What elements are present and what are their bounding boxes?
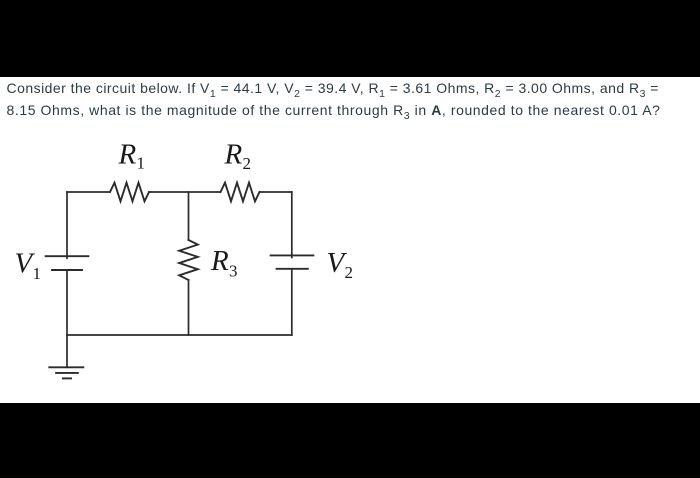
svg-text:R: R bbox=[224, 139, 243, 171]
svg-text:1: 1 bbox=[137, 154, 146, 173]
resistor R1 bbox=[110, 183, 149, 202]
wire: top rail middle segment (R1 to R2, through node at middle branch) bbox=[149, 191, 221, 193]
wire: top rail left segment (V1 top to R1) bbox=[67, 191, 110, 193]
svg-text:2: 2 bbox=[243, 154, 252, 173]
battery V1 bbox=[46, 256, 89, 270]
wire: bottom rail bbox=[67, 334, 292, 336]
wire: left branch lower (V1 down to bottom rail and ground stub) bbox=[66, 270, 68, 367]
wire: middle branch lower (R3 down to bottom rail) bbox=[188, 280, 190, 335]
battery V2 bbox=[271, 255, 314, 268]
label V1 bbox=[15, 247, 42, 283]
resistor R3 bbox=[179, 240, 198, 280]
ground bbox=[49, 367, 83, 378]
svg-text:3: 3 bbox=[229, 262, 238, 281]
top black bar bbox=[0, 0, 700, 77]
label R3 bbox=[210, 245, 238, 281]
label R2 bbox=[224, 139, 252, 173]
wire: right branch upper (top rail corner down to V2) bbox=[291, 192, 293, 258]
svg-text:1: 1 bbox=[33, 264, 42, 283]
wire: left branch upper (top rail corner down to V1) bbox=[66, 192, 68, 258]
svg-text:2: 2 bbox=[345, 263, 354, 282]
label R1 bbox=[118, 138, 146, 172]
label V2 bbox=[327, 247, 354, 282]
wire: middle branch upper (top rail node down to R3) bbox=[188, 192, 190, 240]
question text bbox=[7, 77, 700, 121]
wire: top rail right segment (R2 to V2 top corner) bbox=[260, 191, 292, 193]
svg-text:R: R bbox=[118, 138, 137, 170]
wire: right branch lower (V2 down to bottom rail) bbox=[291, 269, 293, 335]
resistor R2 bbox=[221, 183, 260, 202]
svg-text:R: R bbox=[210, 245, 229, 277]
bottom black bar bbox=[0, 403, 700, 478]
